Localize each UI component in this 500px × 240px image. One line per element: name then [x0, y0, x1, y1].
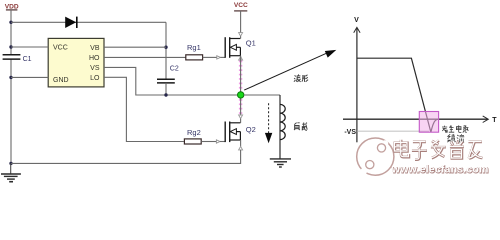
graph -VS level line [357, 130, 429, 132]
node C2-VS junction [164, 93, 167, 96]
svg-text:-VS: -VS [344, 129, 356, 136]
watermark logo circle [357, 138, 394, 175]
waveform trace [357, 58, 439, 132]
svg-text:VS: VS [90, 65, 100, 72]
pin marker Q1 drain [239, 33, 243, 37]
svg-text:VCC: VCC [53, 45, 68, 52]
wire bootstrap vertical [165, 22, 167, 79]
wire top rail [11, 21, 166, 23]
svg-text:LO: LO [90, 75, 100, 82]
wire LO pin to Rg2 [104, 77, 184, 141]
label 续流 [447, 134, 464, 142]
power symbol VCC [234, 2, 248, 11]
wire switch node to load [244, 94, 280, 96]
power symbol VDD [5, 4, 19, 11]
wire VB pin [104, 46, 166, 48]
pin marker Q1 source [239, 57, 243, 61]
capacitor C2 [157, 65, 179, 95]
svg-text:Q1: Q1 [246, 38, 256, 47]
wire Q2 source to bottom rail [11, 150, 241, 164]
wire GND pin [11, 76, 48, 78]
label 负载 (load) [294, 123, 307, 131]
wire VS pin [104, 67, 238, 95]
node VCC branch junction [9, 45, 12, 48]
pin marker Q2 drain [239, 115, 243, 119]
node bottom rail junction [9, 162, 12, 165]
svg-text:www.elecfans.com: www.elecfans.com [391, 163, 489, 175]
svg-text:HO: HO [89, 55, 100, 62]
wire left rail [10, 10, 12, 164]
node switch-node (green) [238, 92, 244, 98]
svg-text:C2: C2 [170, 65, 179, 72]
op-amp U1 gate-driver IC block [48, 38, 104, 87]
svg-text:GND: GND [53, 77, 69, 84]
highlight box parasitic spike [419, 112, 438, 133]
svg-text:T: T [492, 117, 497, 124]
svg-text:C1: C1 [23, 56, 32, 63]
wire switch node highlighted (Q1 source to Q2 drain) [239, 56, 242, 115]
svg-text:Rg2: Rg2 [187, 128, 201, 137]
graph T axis [343, 116, 497, 124]
inductor load [280, 95, 285, 159]
node top-left corner junction [9, 21, 12, 24]
svg-text:VCC: VCC [234, 2, 248, 9]
node VB junction [164, 46, 167, 49]
resistor Rg1 [186, 43, 225, 60]
transistor Q2 [225, 122, 256, 143]
diode D1 [65, 17, 77, 28]
wire VCC pin [11, 46, 48, 48]
node GND branch junction [9, 76, 12, 79]
arrow to waveform graph [244, 50, 336, 90]
ground left [1, 163, 21, 181]
svg-text:VB: VB [90, 45, 100, 52]
label 寄生电感 [442, 125, 468, 132]
svg-text:V: V [354, 17, 359, 24]
capacitor C1 [3, 55, 32, 63]
wire Q1 drain to VCC [240, 11, 242, 33]
svg-text:Rg1: Rg1 [187, 43, 201, 52]
label 波形 (waveform) [294, 74, 308, 82]
resistor Rg2 [184, 128, 225, 144]
current direction arrow (dashed) [265, 103, 272, 143]
wire HO pin to Rg1 [104, 56, 186, 58]
svg-text:Q2: Q2 [246, 125, 256, 134]
transistor Q1 [225, 37, 256, 58]
ground load [270, 159, 291, 167]
pin marker Q2 source [240, 140, 242, 146]
graph V axis [354, 17, 360, 143]
